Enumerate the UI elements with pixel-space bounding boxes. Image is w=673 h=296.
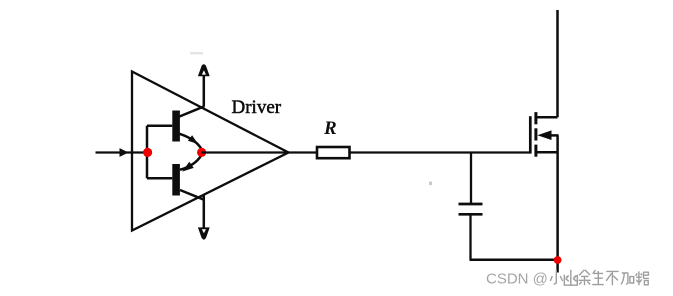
transistor Q2 emitter arrowhead: [182, 162, 194, 172]
wire drain rail: [556, 10, 559, 117]
input arrowhead: [120, 148, 129, 157]
transistor Q2 emitter: [180, 156, 201, 170]
transistor Q2 base lead: [147, 177, 172, 180]
node source bottom red dot: [554, 256, 562, 264]
transistor Q1 emitter: [180, 134, 202, 149]
transistor Q3 channel segment drain: [534, 112, 537, 124]
capacitor C1 bottom lead: [469, 216, 471, 260]
watermark glyph sheng: [592, 270, 604, 285]
up arrow inner white: [202, 70, 206, 74]
watermark glyph you: [564, 270, 577, 285]
svg-text:Driver: Driver: [232, 97, 282, 118]
svg-text:R: R: [323, 118, 337, 139]
wire base tie: [146, 126, 149, 179]
transistor Q1 base bar: [172, 111, 180, 142]
wire source rail down: [556, 135, 559, 272]
transistor Q3 source stub: [536, 151, 558, 154]
down arrow inner white: [202, 229, 206, 233]
svg-text:CSDN @: CSDN @: [486, 271, 548, 288]
transistor Q3 channel segment source: [534, 145, 537, 157]
resistor R body: [317, 147, 350, 158]
transistor Q2 base bar: [172, 164, 180, 196]
wire resistor to gate: [350, 151, 531, 153]
artifact dot: [429, 182, 432, 186]
transistor Q1 base lead: [147, 124, 172, 127]
node output red dot: [197, 148, 206, 157]
watermark glyph tang: [636, 271, 649, 285]
capacitor C1 bottom plate: [459, 213, 483, 216]
wire down rail: [203, 196, 206, 229]
op-amp U1 driver triangle: [132, 72, 289, 231]
up arrow (hollow): [198, 64, 210, 76]
node input red dot: [143, 148, 152, 157]
transistor Q3 drain stub: [536, 116, 558, 119]
watermark glyph xiao: [550, 270, 562, 285]
watermark glyph yu: [579, 270, 591, 285]
transistor Q1 collector: [180, 106, 205, 116]
watermark glyph bu: [606, 271, 619, 285]
transistor Q1 emitter arrowhead: [188, 135, 198, 144]
capacitor C1 top plate: [459, 203, 483, 206]
watermark glyph jia: [621, 273, 634, 284]
wire input lead: [96, 151, 149, 153]
transistor Q2 collector: [180, 190, 204, 200]
transistor Q3 channel segment body: [534, 128, 537, 140]
down arrow (hollow): [198, 227, 210, 239]
wire output to resistor: [202, 151, 317, 153]
capacitor C1 top lead: [470, 153, 472, 204]
artifact smudge: [190, 52, 203, 55]
transistor Q3 MOSFET gate bar: [529, 116, 532, 153]
transistor Q3 body lead: [543, 134, 559, 137]
wire bottom return: [470, 259, 559, 262]
wire up rail: [203, 76, 206, 107]
transistor Q3 body arrowhead: [537, 130, 551, 140]
